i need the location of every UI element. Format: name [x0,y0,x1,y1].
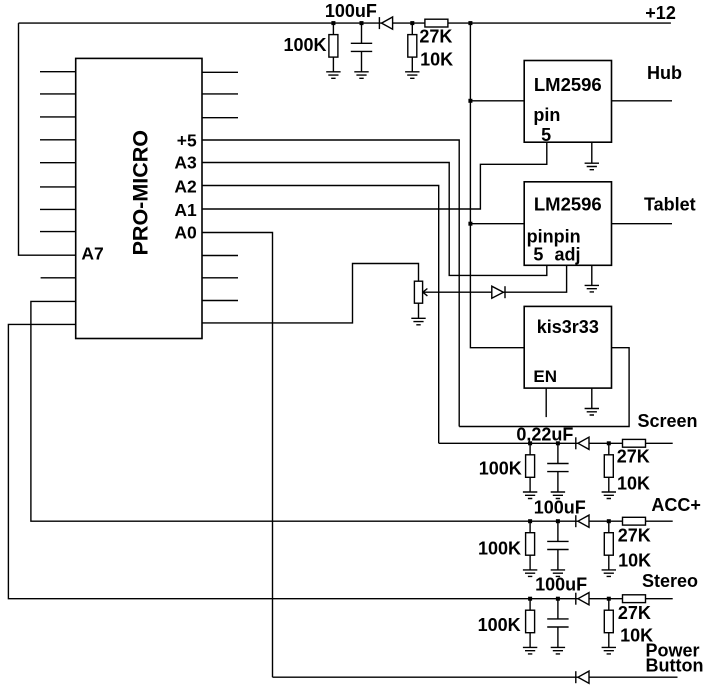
wire: pot wiper to adj (with arrow) [423,265,567,296]
svg-text:Stereo: Stereo [642,571,698,591]
wire: +12 vertical drop to kis3r33 input [470,23,524,348]
svg-text:5: 5 [541,125,551,145]
capacitor 100uF (ACC+ row) [547,521,568,570]
svg-text:0,22uF: 0,22uF [516,425,573,445]
IC U2 LM2596 #1 box [524,61,611,143]
wire: left vertical to A7 pin [19,23,76,255]
capacitor 100uF (top rail) [351,23,372,72]
wire: Hub output [612,100,673,102]
diode D3 (Screen row, pointing left) [576,437,589,449]
wire: A3 to LM2596 #2 pin 5 [202,163,547,276]
wire: Tablet output [612,223,673,225]
wire: left pin stubs [40,72,76,278]
node: Stereo row / 100K [528,597,532,601]
wire: LM2596 #2 ground stub [591,265,593,285]
svg-text:27K: 27K [617,446,650,466]
svg-text:5: 5 [533,244,543,264]
svg-text:A7: A7 [81,244,103,264]
ground [523,492,537,499]
node: Screen row / capacitor [556,441,560,445]
ground [523,570,537,577]
diode D2 (wiper line, pointing right) [492,286,505,298]
node: Stereo row / 10K [607,597,611,601]
svg-text:+12: +12 [645,3,676,23]
resistor 10K (Screen row) [604,443,613,492]
ground [585,163,599,170]
wire: kis3r33 output to Screen net [459,348,629,427]
ground [411,318,425,325]
resistor 100K (top rail) [329,23,338,72]
diode D1 (top rail, pointing left) [379,17,392,29]
svg-text:Screen: Screen [638,411,698,431]
ground [585,285,599,292]
resistor 100K (ACC+ row) [526,521,535,570]
ground [326,72,340,79]
ground [602,492,616,499]
svg-text:Hub: Hub [647,63,682,83]
svg-text:A1: A1 [174,200,197,220]
diode D5 (Stereo row, pointing left) [576,593,589,605]
svg-text:A3: A3 [174,153,197,173]
ground [585,409,599,416]
wire: LM2596 #1 ground stub [591,142,593,163]
wire: pin to Stereo row [8,324,672,598]
node: junction +12 / LM2596 #2 input [468,222,472,226]
node: ACC+ row / 10K [607,519,611,523]
node: junction rail / 10K [410,21,414,25]
ground [602,570,616,577]
svg-text:adj: adj [555,244,581,264]
wire: A0 down the middle [202,233,273,678]
resistor 100K (Screen row) [526,443,535,492]
diode D4 (ACC+ row, pointing left) [576,515,589,527]
wire: pin to potentiometer top [202,264,419,323]
IC U4 kis3r33 box [524,306,611,388]
ground [551,570,565,577]
wire: A2 to Screen row [202,186,439,444]
svg-text:100K: 100K [284,35,327,55]
svg-text:10K: 10K [420,49,453,69]
IC U3 LM2596 #2 box [524,182,611,265]
svg-text:100K: 100K [479,459,522,479]
ground [523,647,537,654]
resistor 27K (top rail, inline) [425,19,448,27]
svg-text:ACC+: ACC+ [651,495,701,515]
node: Screen row / 100K [528,441,532,445]
node: junction 100uF rail / 100K [331,21,335,25]
svg-text:27K: 27K [618,525,651,545]
ground [551,647,565,654]
IC U1 PRO-MICRO box [76,58,202,338]
resistor 10K (ACC+ row) [604,521,613,570]
svg-text:10K: 10K [617,474,650,494]
node: ACC+ row / capacitor [556,519,560,523]
wire: kis3r33 ground stub [591,388,593,408]
wire: LM2596 #2 input [470,223,524,225]
svg-text:27K: 27K [419,26,452,46]
svg-text:A0: A0 [174,223,197,243]
svg-text:100uF: 100uF [535,575,587,595]
svg-text:pin: pin [533,105,560,125]
svg-text:EN: EN [533,367,557,386]
resistor 27K (Stereo row, inline) [623,595,646,603]
svg-text:10K: 10K [618,551,651,571]
node: junction +12 / LM2596 #1 input [468,99,472,103]
node: junction rail / capacitor [360,21,364,25]
resistor 10K (Stereo row) [604,599,613,648]
wire: right pin stubs [202,72,238,300]
ground [602,647,616,654]
svg-text:100K: 100K [478,539,521,559]
svg-text:100uF: 100uF [325,1,377,21]
wire: LM2596 #1 input [470,100,524,102]
svg-text:+5: +5 [177,131,197,151]
resistor 27K (ACC+ row, inline) [623,517,646,525]
svg-text:kis3r33: kis3r33 [537,317,599,337]
wire: A1 to LM2596 #1 pin 5 [202,142,547,209]
svg-text:LM2596: LM2596 [534,193,602,214]
wire: +5 net [202,140,459,427]
resistor 100K (Stereo row) [526,599,535,648]
node: junction rail / +12 drop [468,21,472,25]
svg-text:100uF: 100uF [534,498,586,518]
svg-text:LM2596: LM2596 [534,74,602,95]
svg-text:PRO-MICRO: PRO-MICRO [129,130,153,255]
wire: Screen row [439,442,673,444]
node: Stereo row / capacitor [556,597,560,601]
wire: +12 top rail [19,22,671,24]
wire: Power Button row [273,676,678,678]
resistor 10K (top rail) [408,23,417,72]
potentiometer R-pot [414,281,422,303]
diode D6 (Power Button row, pointing left) [576,671,589,683]
capacitor 100uF (Stereo row) [547,599,568,648]
node: ACC+ row / 100K [528,519,532,523]
svg-text:Button: Button [646,656,704,676]
svg-text:A2: A2 [174,177,197,197]
svg-text:100K: 100K [478,615,521,635]
node: Screen row / 10K [607,441,611,445]
wire: pot bottom to ground [418,303,420,318]
svg-text:Tablet: Tablet [644,194,696,214]
ground [405,72,419,79]
wire: pin to ACC+ row [31,301,673,521]
svg-text:27K: 27K [618,603,651,623]
resistor 27K (Screen row, inline) [623,439,646,447]
ground [551,492,565,499]
ground [354,72,368,79]
capacitor 0,22uF (Screen row) [547,443,568,492]
wire: EN pin stub [545,388,547,417]
